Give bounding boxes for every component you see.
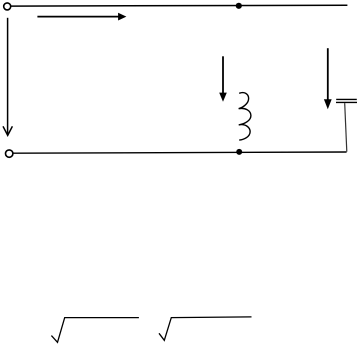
arrowhead (open V, left wire) [3,126,12,135]
arrow iC (right current arrow, filled head) [324,48,332,109]
terminal T1 (top-left open circle) [4,3,11,10]
node (top junction dot) [236,3,242,9]
terminal T2 (bottom-left open circle) [6,150,13,157]
wire (left vertical) [7,18,9,135]
arrow I (top current direction, filled head) [37,13,126,21]
sqrt expression 1 (radical with vinculum) [51,318,138,343]
sqrt expression 2 (radical with vinculum) [159,317,252,340]
wire (bottom horizontal) [13,152,346,153]
wire (capacitor lower plate to bottom wire) [345,103,347,152]
wire (top horizontal) [11,4,347,7]
arrow iL (middle current arrow, filled head) [219,56,227,102]
capacitor C (two horizontal plates, top-right) [336,99,357,102]
inductor L (coil) [239,93,251,141]
node (bottom junction dot) [236,149,242,155]
